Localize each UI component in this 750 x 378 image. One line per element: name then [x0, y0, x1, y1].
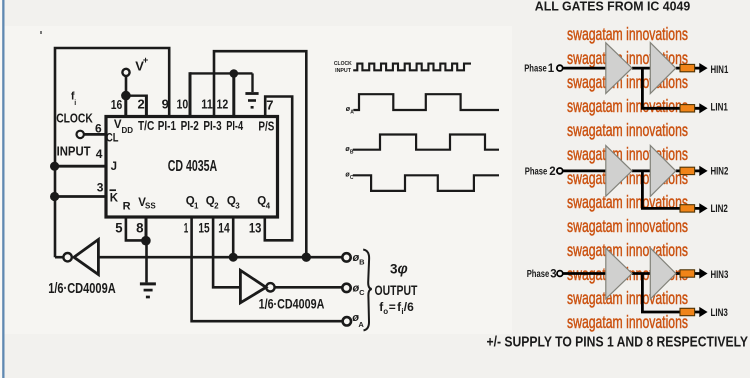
ground G1 bars [245, 92, 258, 95]
svg-text:1/6·CD4009A: 1/6·CD4009A [48, 281, 116, 297]
svg-text:3φ: 3φ [390, 262, 408, 278]
phase A terminal [343, 317, 351, 325]
svg-text:i: i [74, 100, 76, 107]
svg-text:CLOCK: CLOCK [334, 61, 353, 67]
ground G1 stem [251, 73, 253, 92]
svg-text:2: 2 [138, 97, 145, 112]
svg-text:Phase: Phase [527, 269, 550, 280]
buffer B2 [650, 145, 676, 196]
svg-text:K: K [110, 192, 119, 204]
wire: HIN1 output [676, 67, 701, 70]
LIN3 connector box [680, 308, 695, 315]
svg-text:OUTPUT: OUTPUT [375, 282, 418, 298]
wire: Phase2 to buffer B1 [563, 169, 606, 172]
svg-text:J: J [111, 161, 117, 173]
left margin light strip [0, 0, 2, 378]
wire: PI-3 to phase-B rail [214, 51, 306, 257]
svg-text:PI-2: PI-2 [181, 119, 199, 133]
svg-text:1/6·CD4009A: 1/6·CD4009A [259, 296, 325, 312]
svg-text:1: 1 [184, 220, 189, 236]
svg-text:o: o [383, 307, 388, 316]
HIN3 connector box [680, 270, 695, 277]
wire: K input [55, 195, 106, 198]
wire: Q1 to phase A terminal [192, 217, 343, 321]
phase B terminal [342, 253, 350, 261]
svg-text:swagatam innovations: swagatam innovations [567, 240, 688, 260]
blue left border [2, 0, 4, 378]
inverter U2 bubble [63, 253, 71, 261]
svg-text:Phase: Phase [524, 64, 547, 75]
wire: phase B rail [98, 256, 342, 259]
svg-text:INPUT: INPUT [335, 68, 351, 74]
svg-text:swagatam innovations: swagatam innovations [567, 24, 688, 44]
wire: top-left loop from PI-1 to left rail [55, 48, 169, 257]
Phase1 input terminal [557, 65, 563, 71]
LIN1 connector box [680, 105, 695, 112]
svg-text:4: 4 [266, 201, 271, 210]
wire: Q3 to phase B rail [232, 217, 235, 257]
wire: clock terminal to pin 6 [84, 133, 106, 136]
LIN2 connector box [680, 205, 695, 212]
svg-text:P/S: P/S [258, 120, 274, 134]
svg-text:SS: SS [145, 202, 156, 211]
svg-text:2: 2 [214, 201, 219, 210]
svg-text:T/C: T/C [138, 119, 154, 133]
junction dot K [50, 192, 59, 201]
watermark swagatam innovations lines [567, 24, 688, 332]
waveform phase C trace [353, 175, 499, 191]
wire: J input [55, 165, 106, 168]
buffer C1 [606, 248, 632, 299]
junction dot PI-3 rail [302, 253, 311, 262]
svg-text:14: 14 [218, 220, 230, 236]
svg-text:HIN2: HIN2 [711, 166, 729, 178]
wire: buffer C1 to buffer C2 [632, 272, 650, 275]
svg-text:LIN3: LIN3 [711, 307, 728, 319]
waveform phase B trace [353, 135, 499, 150]
junction dot V+ [121, 91, 131, 101]
svg-text:HIN3: HIN3 [711, 269, 729, 281]
svg-text:/6: /6 [404, 300, 414, 314]
svg-text:1: 1 [194, 201, 199, 210]
svg-text:DD: DD [122, 126, 134, 135]
svg-text:Phase: Phase [525, 167, 548, 178]
svg-text:11: 11 [201, 97, 213, 112]
svg-text:3: 3 [97, 180, 104, 194]
clock input terminal [77, 131, 84, 138]
svg-text:PI-3: PI-3 [203, 119, 221, 133]
svg-text:+/- SUPPLY TO PINS 1 AND 8 RES: +/- SUPPLY TO PINS 1 AND 8 RESPECTIVELY [487, 333, 749, 350]
svg-text:swagatam innovations: swagatam innovations [567, 96, 688, 116]
wire: HIN2 output [676, 169, 701, 172]
svg-text:15: 15 [198, 220, 209, 236]
svg-text:B: B [359, 258, 365, 267]
wire: junction drop to LIN1 [642, 68, 700, 108]
svg-text:CL: CL [106, 132, 119, 144]
svg-text:C: C [359, 288, 365, 297]
svg-text:R: R [123, 201, 131, 213]
pin 10 stub [189, 72, 192, 116]
HIN3 arrowhead [699, 268, 707, 278]
ground G2 stem [145, 240, 148, 282]
svg-text:swagatam innovations: swagatam innovations [567, 144, 688, 164]
svg-text:swagatam innovations: swagatam innovations [567, 216, 688, 236]
svg-text:swagatam innovations: swagatam innovations [567, 120, 688, 140]
HIN1 connector box [680, 64, 695, 71]
svg-text:3: 3 [550, 268, 556, 280]
svg-text:=: = [389, 300, 396, 314]
wire: Q2 to inverter U3 input [213, 217, 240, 287]
ground G2 bars [140, 282, 156, 285]
wire: junction drop to LIN2 [642, 171, 700, 209]
waveform phase A trace [353, 94, 499, 110]
svg-text:swagatam innovations: swagatam innovations [567, 312, 688, 332]
svg-text:LIN1: LIN1 [711, 102, 728, 114]
svg-text:CD 4035A: CD 4035A [168, 158, 218, 175]
svg-text:7: 7 [266, 97, 273, 112]
wire: PI-2 to ground stub [190, 72, 253, 74]
svg-text:ALL GATES FROM IC 4049: ALL GATES FROM IC 4049 [535, 0, 691, 14]
svg-text:8: 8 [136, 220, 144, 236]
svg-text:1: 1 [548, 63, 555, 75]
svg-text:LIN2: LIN2 [711, 203, 728, 215]
wire: junction drop to LIN3 [642, 274, 700, 313]
wire: V+ junction to pin 2 [125, 94, 147, 96]
wire: feedback rail to inverter U2 output [55, 256, 63, 259]
LIN2 arrowhead [699, 203, 707, 213]
HIN2 arrowhead [699, 166, 707, 176]
pin 2 stub [145, 95, 148, 117]
wire: inverter U3 output to phase C terminal [275, 286, 343, 289]
waveform clock trace [353, 64, 471, 71]
HIN1 arrowhead [699, 63, 707, 73]
svg-text:swagatam innovations: swagatam innovations [567, 288, 688, 308]
buffer A1 [606, 43, 632, 94]
buffer A2 [650, 43, 676, 94]
svg-text:5: 5 [115, 220, 122, 236]
V+ terminal circle [122, 69, 129, 76]
svg-text:CLOCK: CLOCK [56, 111, 93, 126]
svg-text:INPUT: INPUT [57, 144, 91, 159]
buffer C2 [650, 248, 676, 299]
phase C terminal [342, 284, 350, 292]
IC U1 CD4035A body [106, 117, 278, 218]
pin 8 stub [145, 217, 148, 240]
output brace [363, 250, 372, 331]
svg-text:16: 16 [111, 97, 123, 112]
inverter U2 triangle [74, 240, 99, 275]
inverter U3 bubble [266, 283, 274, 291]
svg-text:2: 2 [549, 166, 555, 178]
svg-text:PI-1: PI-1 [158, 119, 176, 133]
pin 16 stub [124, 96, 127, 117]
inverter U3 triangle [240, 270, 266, 303]
svg-text:10: 10 [177, 97, 189, 112]
svg-text:4: 4 [96, 147, 103, 161]
pin 7 loop to pin 13 (Q4 to P/S) [265, 97, 292, 241]
svg-text:swagatam innovations: swagatam innovations [567, 72, 688, 92]
wire: Phase3 to buffer C1 [563, 272, 606, 275]
svg-text:PI-4: PI-4 [226, 119, 243, 133]
Phase2 input terminal [557, 168, 563, 174]
svg-text:9: 9 [162, 97, 169, 112]
svg-text:6: 6 [95, 122, 102, 136]
Phase3 input terminal [557, 271, 563, 277]
svg-text:+: + [143, 55, 149, 66]
junction dot VSS [141, 236, 151, 246]
svg-text:12: 12 [217, 97, 229, 112]
LIN3 arrowhead [699, 307, 707, 317]
junction dot Q3 rail [229, 253, 238, 262]
stray speck [40, 31, 42, 34]
wire: V+ terminal drop [125, 76, 128, 96]
HIN2 connector box [680, 167, 695, 174]
svg-text:A: A [358, 320, 364, 329]
scan paper background [4, 26, 512, 334]
wire: buffer B1 to buffer B2 [632, 169, 650, 172]
LIN1 arrowhead [699, 103, 707, 113]
wire: buffer A1 to buffer A2 [632, 67, 650, 70]
junction dot J [50, 162, 59, 171]
svg-text:13: 13 [249, 220, 262, 236]
svg-text:HIN1: HIN1 [711, 64, 729, 76]
pin 5 stub and wire to reset node [126, 217, 146, 240]
svg-text:3: 3 [235, 201, 240, 210]
junction dot PI-4 [230, 69, 239, 78]
pin 12 stub [232, 72, 235, 116]
wire: Phase1 to buffer A1 [563, 67, 606, 70]
buffer B1 [606, 146, 632, 197]
wire: HIN3 output [676, 272, 701, 275]
